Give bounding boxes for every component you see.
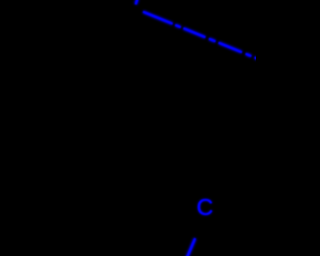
svg-text:C: C [197, 194, 214, 220]
